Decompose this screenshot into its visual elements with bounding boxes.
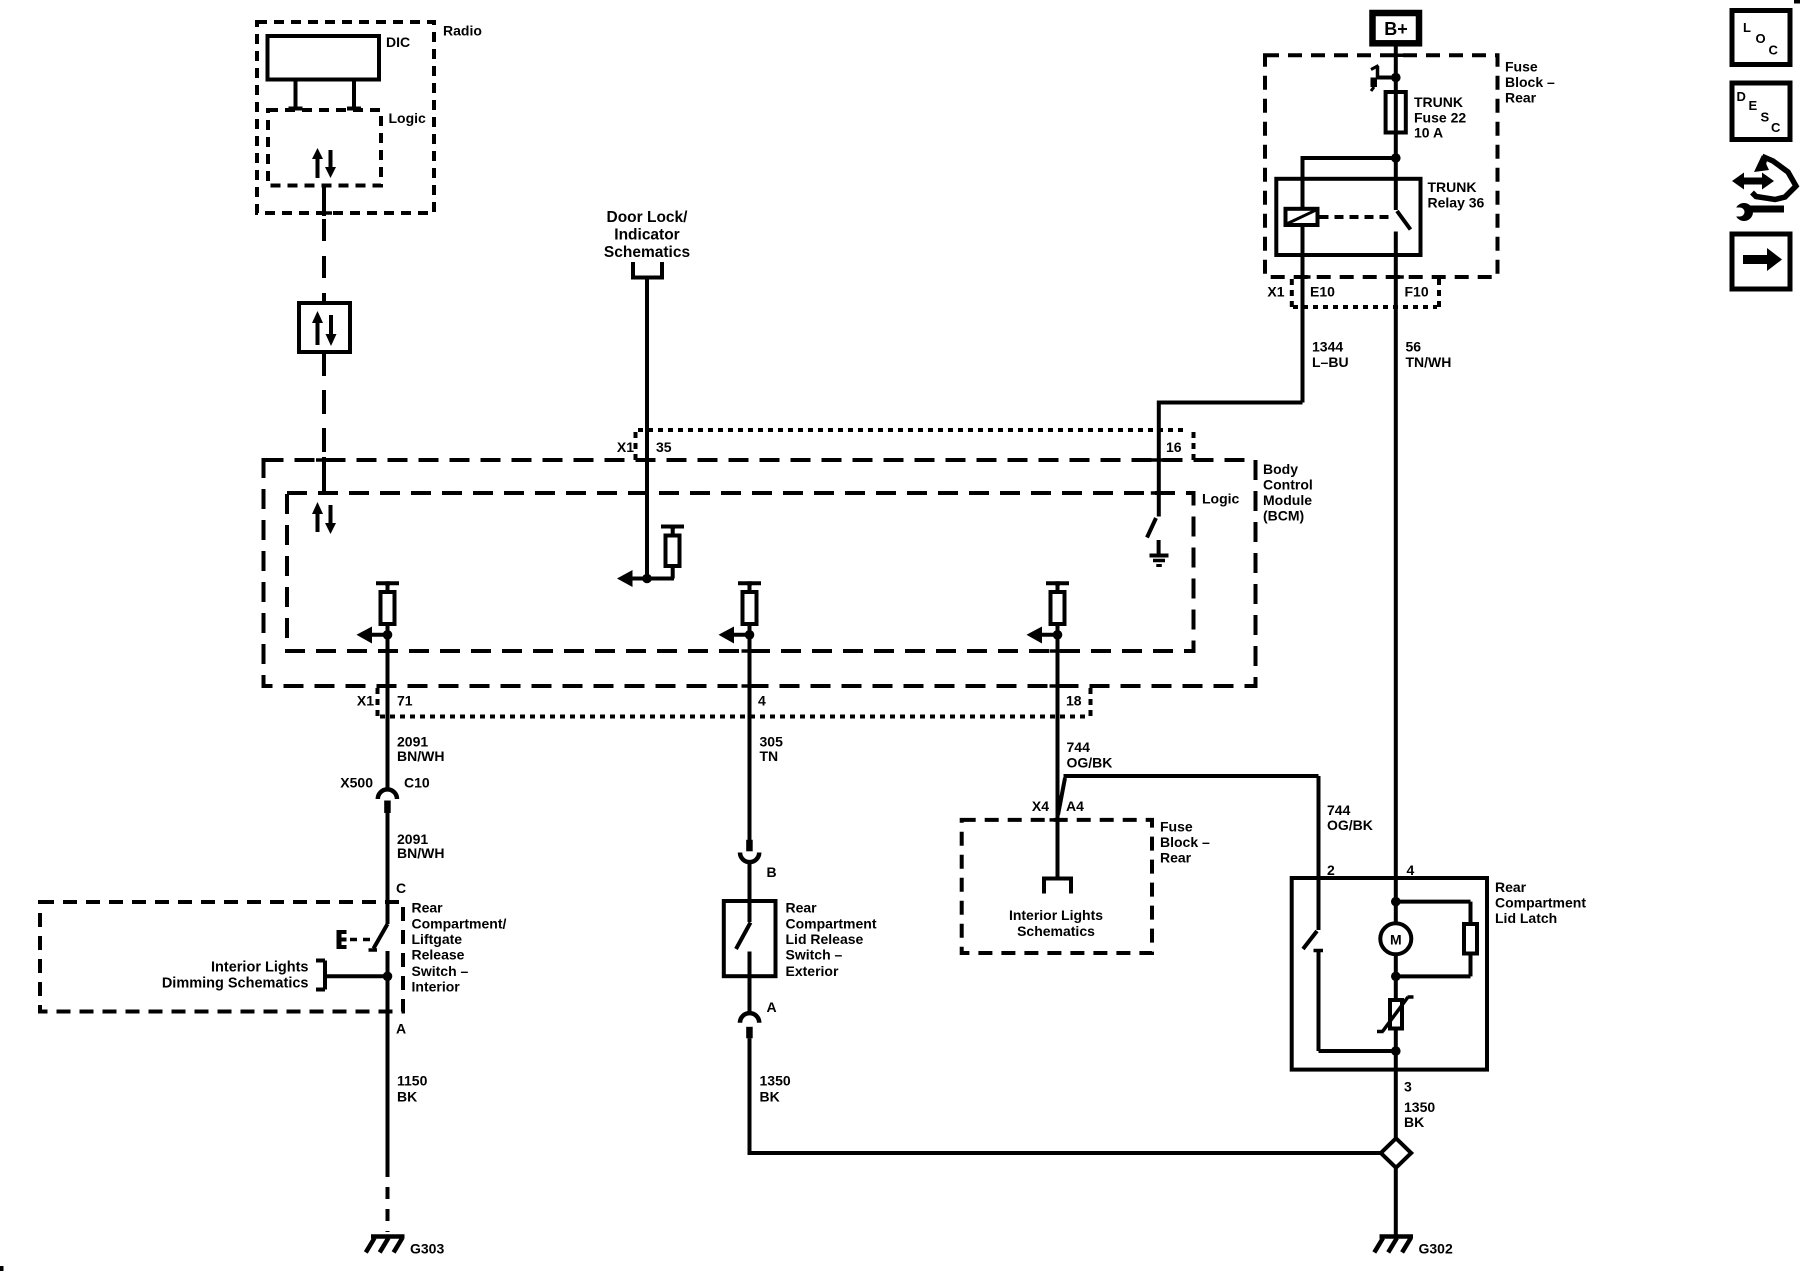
tick pin 4 outer crossing xyxy=(742,684,758,688)
tick pin 71 outer crossing xyxy=(380,684,396,688)
tick fuse block 2 crossing xyxy=(1050,818,1066,822)
resistor (BCM pin 18 output) xyxy=(1046,581,1069,635)
svg-text:D: D xyxy=(1737,89,1746,104)
BCM top connector labels X1 35 16 xyxy=(617,439,1182,455)
svg-text:Rear: Rear xyxy=(1505,90,1537,106)
svg-text:71: 71 xyxy=(397,693,413,709)
TRUNK Fuse 22 10 A label xyxy=(1414,94,1466,141)
inline connector C10 xyxy=(378,789,397,813)
Interior Lights Schematics label xyxy=(1009,907,1103,939)
wire dashed serial data link upper xyxy=(322,219,326,303)
Radio dashed box xyxy=(257,22,434,213)
tick pin 4 inner crossing xyxy=(742,649,758,653)
svg-text:OG/BK: OG/BK xyxy=(1327,817,1373,833)
svg-text:Schematics: Schematics xyxy=(1017,923,1095,939)
wire pin 18 down xyxy=(1056,635,1060,720)
wire 1350 labels (latch) xyxy=(1404,1099,1435,1130)
svg-text:A4: A4 xyxy=(1066,798,1084,814)
latch switch wire + blade xyxy=(1303,878,1396,1051)
tick wire35 BCM crossing xyxy=(639,458,655,462)
wire 744 labels (latch side) xyxy=(1327,802,1373,833)
svg-text:Interior: Interior xyxy=(412,979,461,995)
wire splice to G302 xyxy=(1394,1168,1398,1235)
wire 1344 labels xyxy=(1312,339,1349,371)
Fuse Block - Rear label xyxy=(1505,59,1555,106)
Door Lock/Indicator Schematics label xyxy=(604,209,690,261)
svg-text:TN: TN xyxy=(760,748,779,764)
svg-text:C10: C10 xyxy=(404,775,430,791)
wire 35 signal xyxy=(645,278,649,579)
svg-text:BK: BK xyxy=(1404,1114,1424,1130)
svg-text:744: 744 xyxy=(1327,802,1351,818)
svg-text:X4: X4 xyxy=(1032,798,1049,814)
BCM inner Logic dashed box xyxy=(287,493,1194,651)
svg-text:A: A xyxy=(396,1021,406,1037)
connector tick X1 (fuse band) xyxy=(1290,279,1294,307)
svg-text:Rear: Rear xyxy=(1495,879,1527,895)
BCM bottom connector band dotted xyxy=(380,715,1088,719)
connector tick F10 xyxy=(1437,279,1441,307)
svg-text:1344: 1344 xyxy=(1312,339,1343,355)
node motor top junction xyxy=(1391,897,1401,907)
svg-text:1350: 1350 xyxy=(1404,1099,1435,1115)
svg-text:3: 3 xyxy=(1404,1079,1412,1095)
wire pin 4 to logic arrow xyxy=(719,627,750,644)
wire to dimming schematics xyxy=(326,974,388,978)
svg-text:E: E xyxy=(1749,98,1758,113)
connector tick X1 top band xyxy=(634,432,638,460)
svg-text:1150: 1150 xyxy=(397,1073,428,1089)
node latch common junction xyxy=(1391,1046,1401,1056)
svg-text:Fuse: Fuse xyxy=(1505,59,1538,75)
resistor (BCM pin 71 output) xyxy=(376,581,399,635)
wire 2091 labels upper xyxy=(397,733,444,764)
ground G303 xyxy=(366,1237,405,1253)
inline connector A xyxy=(740,1013,759,1038)
wire pin 71 down xyxy=(386,635,390,720)
TRUNK Relay 36 box xyxy=(1276,179,1420,255)
svg-text:BK: BK xyxy=(397,1088,417,1104)
svg-text:Logic: Logic xyxy=(1202,491,1240,507)
Radio Logic dashed box xyxy=(268,110,381,186)
relay coil xyxy=(1286,209,1318,225)
wire 35 to logic arrow xyxy=(617,570,674,587)
svg-text:BN/WH: BN/WH xyxy=(397,748,444,764)
actuator dashed link xyxy=(350,938,371,942)
svg-text:DIC: DIC xyxy=(386,34,410,50)
svg-text:Rear: Rear xyxy=(786,900,818,916)
DESC icon box xyxy=(1732,83,1790,140)
connector tick X1 bottom band xyxy=(376,688,380,716)
svg-text:X1: X1 xyxy=(1267,284,1284,300)
tick BCM outer box crossing xyxy=(316,458,332,462)
svg-text:Rear: Rear xyxy=(1160,850,1192,866)
svg-text:L: L xyxy=(1743,20,1751,35)
svg-text:744: 744 xyxy=(1067,739,1091,755)
svg-text:X500: X500 xyxy=(340,775,373,791)
wire 2091 BCM to C10 xyxy=(386,716,390,788)
svg-text:L–BU: L–BU xyxy=(1312,354,1349,370)
Interior Lights Dimming Schematics label xyxy=(162,960,309,992)
tick radio box crossing xyxy=(316,211,332,215)
svg-text:Door Lock/: Door Lock/ xyxy=(607,209,689,226)
tick wire16 inner crossing xyxy=(1151,491,1167,495)
node dimming tap junction xyxy=(383,972,393,982)
svg-text:(BCM): (BCM) xyxy=(1263,508,1304,524)
Rear Compartment Lid Release Switch - Exterior label xyxy=(786,900,877,979)
BCM internal switch blade (pin16) xyxy=(1147,518,1156,538)
svg-text:BN/WH: BN/WH xyxy=(397,845,444,861)
Rear Compartment/Liftgate Release Switch - Interior label xyxy=(412,900,507,995)
exterior switch wire + blade xyxy=(736,901,751,976)
svg-text:Liftgate: Liftgate xyxy=(412,931,463,947)
svg-text:B+: B+ xyxy=(1384,19,1408,39)
wire 1150 xyxy=(386,1012,390,1178)
resistor (BCM pin 4 output) xyxy=(738,581,761,635)
svg-text:18: 18 xyxy=(1066,693,1082,709)
BCM bottom connector labels X1 71 4 18 xyxy=(357,693,1082,709)
wire 1350 (exterior) xyxy=(748,1038,1382,1153)
B+ terminal box xyxy=(1373,13,1420,43)
svg-text:Radio: Radio xyxy=(443,23,482,39)
svg-text:G303: G303 xyxy=(410,1241,444,1257)
svg-text:35: 35 xyxy=(656,439,672,455)
BCM internal ground xyxy=(1150,540,1169,566)
connector band dotted (fuse block) xyxy=(1293,305,1437,309)
svg-text:Release: Release xyxy=(412,947,465,963)
Interior Lights Dimming dashed box xyxy=(40,902,403,1012)
wire 1344 to BCM pin16 xyxy=(1159,401,1303,517)
wire pin 71 to logic arrow xyxy=(357,627,388,644)
splice diamond xyxy=(1381,1138,1411,1167)
Fuse Block - Rear label 2 xyxy=(1160,819,1210,866)
wire 305 BCM to B xyxy=(748,716,752,851)
svg-text:4: 4 xyxy=(758,693,766,709)
svg-text:2: 2 xyxy=(1327,862,1335,878)
svg-text:Switch –: Switch – xyxy=(412,963,469,979)
svg-text:Switch –: Switch – xyxy=(786,947,843,963)
svg-text:Schematics: Schematics xyxy=(604,244,690,261)
wire B+ feed xyxy=(1394,46,1398,158)
svg-text:M: M xyxy=(1390,931,1402,947)
page corner mark top right xyxy=(1794,0,1800,4)
fuse TRUNK Fuse 22 xyxy=(1386,92,1406,133)
svg-text:Compartment: Compartment xyxy=(786,915,877,931)
svg-text:TN/WH: TN/WH xyxy=(1406,354,1452,370)
svg-text:C: C xyxy=(1771,120,1781,135)
wire 2091 C10 to switch xyxy=(386,813,390,924)
node pin 4 junction xyxy=(745,630,755,640)
Fuse Block - Rear dashed box xyxy=(1265,55,1498,277)
connector X4 A4 labels xyxy=(1032,798,1084,814)
wire into BCM logic xyxy=(322,457,326,494)
tick E10 crossing xyxy=(1295,275,1311,279)
tick pin 71 inner crossing xyxy=(380,649,396,653)
wire B to switch box xyxy=(748,862,752,901)
BCM top connector band dotted xyxy=(638,428,1188,432)
Body Control Module (BCM) label xyxy=(1263,461,1313,524)
wire 305 labels xyxy=(760,733,784,764)
svg-text:A: A xyxy=(767,999,777,1015)
TRUNK Relay 36 label xyxy=(1428,179,1485,211)
svg-text:G302: G302 xyxy=(1419,1241,1453,1257)
wire 1150 labels xyxy=(397,1073,428,1105)
svg-text:S: S xyxy=(1761,110,1770,125)
svg-text:TRUNK: TRUNK xyxy=(1428,179,1477,195)
svg-text:F10: F10 xyxy=(1405,284,1429,300)
svg-text:Lid Latch: Lid Latch xyxy=(1495,910,1557,926)
svg-text:Exterior: Exterior xyxy=(786,963,839,979)
node motor bottom junction xyxy=(1391,972,1401,982)
svg-text:Compartment/: Compartment/ xyxy=(412,915,507,931)
svg-text:O: O xyxy=(1756,31,1766,46)
motor M xyxy=(1380,923,1411,954)
wire 1350 labels (middle) xyxy=(760,1073,791,1105)
svg-text:1350: 1350 xyxy=(760,1073,791,1089)
svg-text:Rear: Rear xyxy=(412,900,444,916)
svg-text:Block –: Block – xyxy=(1160,834,1210,850)
DIC display block xyxy=(268,36,380,80)
wire fuse to coil xyxy=(1303,156,1396,209)
tick fuse box top crossing xyxy=(1388,54,1404,58)
wire 744 labels xyxy=(1067,739,1113,770)
svg-text:E10: E10 xyxy=(1310,284,1335,300)
svg-text:Relay 36: Relay 36 xyxy=(1428,195,1485,211)
svg-text:Module: Module xyxy=(1263,492,1312,508)
wire dashed serial data link lower xyxy=(322,352,326,457)
wire 1150 dashed to ground xyxy=(386,1187,390,1232)
svg-text:Fuse: Fuse xyxy=(1160,819,1193,835)
Rear Compartment Lid Latch label xyxy=(1495,879,1586,926)
wire relay 30 input xyxy=(1394,158,1398,210)
svg-text:Interior Lights: Interior Lights xyxy=(1009,907,1103,923)
wire radio logic output xyxy=(322,186,326,217)
wire 744 BCM to X4 xyxy=(1056,716,1060,879)
svg-text:BK: BK xyxy=(760,1088,780,1104)
next page arrow icon box xyxy=(1732,234,1790,289)
Rear Compartment Lid Release Switch Exterior box xyxy=(724,901,776,976)
svg-text:X1: X1 xyxy=(617,439,634,455)
svg-text:Dimming Schematics: Dimming Schematics xyxy=(162,976,309,992)
wire coil to E10 xyxy=(1301,225,1305,403)
connector X1 E10 F10 labels xyxy=(1267,284,1428,300)
relay switch blade xyxy=(1397,211,1411,230)
svg-text:4: 4 xyxy=(1407,862,1415,878)
serial data arrows (radio logic) xyxy=(312,148,336,178)
node pin 71 junction xyxy=(383,630,393,640)
svg-text:X1: X1 xyxy=(357,693,374,709)
svg-text:16: 16 xyxy=(1166,439,1182,455)
serial data arrows (BCM logic) xyxy=(312,502,336,534)
wire 744 branch to latch xyxy=(1064,776,1319,878)
Fuse Block - Rear dashed box 2 xyxy=(962,820,1152,953)
off-page bracket (dimming) xyxy=(316,961,325,990)
junction dot B+ tap xyxy=(1391,73,1401,83)
LOC icon box xyxy=(1732,11,1790,65)
svg-text:TRUNK: TRUNK xyxy=(1414,94,1463,110)
svg-text:Indicator: Indicator xyxy=(614,227,679,244)
resistor (BCM pin 35 input) xyxy=(661,525,684,579)
node pin 18 junction xyxy=(1053,630,1063,640)
connector tick 18 xyxy=(1089,688,1093,716)
junction dot fuse output xyxy=(1391,153,1401,163)
svg-text:Block –: Block – xyxy=(1505,74,1555,90)
battery feed tap curl xyxy=(1371,66,1396,92)
svg-text:C: C xyxy=(1769,43,1779,58)
wire switch to A connector xyxy=(748,976,752,1011)
svg-text:Body: Body xyxy=(1263,461,1298,477)
inline connector B xyxy=(740,840,759,862)
wire switch lower contact xyxy=(386,951,390,1012)
svg-text:Fuse 22: Fuse 22 xyxy=(1414,110,1466,126)
wrench icon xyxy=(1728,203,1784,221)
svg-text:Compartment: Compartment xyxy=(1495,895,1586,911)
wire relay 87 output xyxy=(1394,232,1398,879)
node wire35 junction xyxy=(642,574,652,584)
interior switch blade xyxy=(369,924,388,950)
wire 56 labels xyxy=(1406,339,1452,371)
navigation arrows icon xyxy=(1732,155,1796,200)
connector tick 16 xyxy=(1192,432,1196,460)
svg-text:OG/BK: OG/BK xyxy=(1067,754,1113,770)
svg-text:Lid Release: Lid Release xyxy=(786,931,864,947)
svg-text:Control: Control xyxy=(1263,477,1313,493)
wire DIC left leg xyxy=(289,80,303,109)
pin 2 and 4 labels xyxy=(1327,862,1415,878)
BCM outer dashed box xyxy=(264,460,1256,686)
serial data arrows (gateway box) xyxy=(312,311,337,346)
wire pin4 through motor xyxy=(1394,878,1398,1000)
svg-text:56: 56 xyxy=(1406,339,1422,355)
off-page terminal (interior lights) xyxy=(1042,879,1073,894)
wire 744 branch diagonal xyxy=(1058,778,1065,815)
page corner mark bottom left xyxy=(0,1266,4,1271)
tick pin 18 inner crossing xyxy=(1050,649,1066,653)
wire DIC right leg xyxy=(347,80,361,109)
switch actuator E symbol xyxy=(337,930,347,949)
tick F10 crossing xyxy=(1388,275,1404,279)
svg-text:B: B xyxy=(767,864,777,880)
wire pin 4 down xyxy=(748,635,752,720)
tick wire16 outer crossing xyxy=(1151,458,1167,462)
tick pin 18 outer crossing xyxy=(1050,684,1066,688)
connector X500 C10 labels xyxy=(340,775,430,791)
svg-text:10 A: 10 A xyxy=(1414,125,1443,141)
resistor (latch parallel) xyxy=(1396,902,1477,977)
wire PTC to pin 3 xyxy=(1394,1029,1398,1139)
off-page terminal (door lock) xyxy=(631,262,664,278)
wire 2091 labels lower xyxy=(397,831,444,861)
svg-text:Logic: Logic xyxy=(389,110,427,126)
serial data gateway box xyxy=(299,303,350,352)
wire pin 18 to logic arrow xyxy=(1027,627,1058,644)
Rear Compartment Lid Latch box xyxy=(1292,878,1487,1070)
ground G302 xyxy=(1374,1237,1413,1253)
relay coil-switch dashed link xyxy=(1320,215,1392,219)
PTC thermal protector xyxy=(1377,997,1414,1032)
svg-text:Interior Lights: Interior Lights xyxy=(211,960,308,976)
svg-text:C: C xyxy=(396,880,406,896)
